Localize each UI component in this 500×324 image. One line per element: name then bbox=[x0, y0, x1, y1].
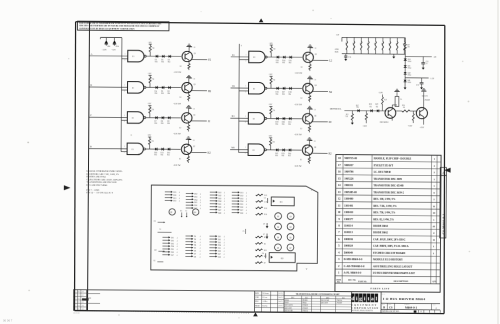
svg-text:664: 664 bbox=[276, 62, 279, 64]
svg-text:1301401: 1301401 bbox=[344, 204, 354, 207]
svg-text:+10: +10 bbox=[314, 48, 317, 50]
svg-text:D17: D17 bbox=[171, 255, 174, 257]
svg-text:D51: D51 bbox=[218, 236, 221, 238]
svg-text:Q2: Q2 bbox=[277, 216, 279, 218]
svg-text:Q9: Q9 bbox=[170, 212, 172, 214]
svg-text:D28: D28 bbox=[369, 104, 372, 106]
svg-text:C16: C16 bbox=[264, 201, 267, 203]
svg-text:664: 664 bbox=[275, 124, 278, 126]
svg-text:R13: R13 bbox=[264, 195, 267, 197]
svg-text:664: 664 bbox=[168, 62, 171, 64]
svg-text:R1: R1 bbox=[345, 43, 347, 45]
svg-text:TRANSISTOR DEC 3009: TRANSISTOR DEC 3009 bbox=[374, 178, 403, 181]
svg-text:2N3009: 2N3009 bbox=[424, 100, 430, 102]
svg-text:D48: D48 bbox=[218, 212, 221, 214]
svg-text:C7: C7 bbox=[263, 234, 265, 236]
svg-text:M664-0-1: M664-0-1 bbox=[405, 306, 417, 310]
svg-text:+10V: +10V bbox=[268, 136, 273, 138]
svg-text:RES. 750, 1/4W, 5%: RES. 750, 1/4W, 5% bbox=[373, 211, 395, 214]
svg-text:D33: D33 bbox=[240, 198, 243, 200]
svg-text:664: 664 bbox=[161, 62, 164, 64]
svg-text:D11: D11 bbox=[171, 237, 174, 239]
svg-text:664: 664 bbox=[167, 123, 170, 125]
svg-text:1000024: 1000024 bbox=[344, 245, 354, 248]
svg-text:D37: D37 bbox=[240, 210, 243, 212]
svg-text:9008337: 9008337 bbox=[344, 164, 354, 167]
svg-text:-15V 2W: -15V 2W bbox=[294, 104, 302, 106]
svg-text:+3.6V: +3.6V bbox=[102, 49, 108, 51]
svg-text:Q2: Q2 bbox=[315, 54, 317, 56]
svg-text:1-8-71: 1-8-71 bbox=[278, 297, 282, 299]
svg-text:Q8: Q8 bbox=[277, 247, 279, 249]
svg-text:RES. 7.5K, 1/4W, 5%: RES. 7.5K, 1/4W, 5% bbox=[373, 205, 397, 208]
svg-text:-15V 2W: -15V 2W bbox=[173, 133, 181, 135]
svg-text:R3: R3 bbox=[360, 43, 362, 45]
svg-text:RESISTORS ARE 7.5K, 1/4W, 5%: RESISTORS ARE 7.5K, 1/4W, 5% bbox=[86, 173, 119, 176]
svg-text:664: 664 bbox=[276, 94, 279, 96]
svg-text:D29: D29 bbox=[375, 104, 378, 106]
svg-text:D12: D12 bbox=[171, 240, 174, 242]
svg-text:Q1: Q1 bbox=[194, 53, 196, 55]
svg-text:DESCRIPTION: DESCRIPTION bbox=[394, 281, 409, 283]
svg-text:1100114: 1100114 bbox=[344, 225, 354, 228]
svg-text:R14: R14 bbox=[264, 214, 267, 216]
svg-text:1000016: 1000016 bbox=[344, 238, 354, 241]
svg-text:C14: C14 bbox=[348, 57, 351, 59]
svg-text:E2: E2 bbox=[253, 57, 255, 59]
svg-text:664: 664 bbox=[282, 124, 285, 126]
svg-text:C8: C8 bbox=[154, 221, 156, 223]
svg-text:D664: D664 bbox=[408, 82, 412, 84]
svg-text:PIN 14 = +5V ON ALL IC`S: PIN 14 = +5V ON ALL IC`S bbox=[86, 191, 113, 194]
svg-text:750: 750 bbox=[152, 48, 155, 50]
svg-text:Q10: Q10 bbox=[193, 212, 196, 214]
svg-text:D5: D5 bbox=[194, 248, 196, 250]
svg-text:664: 664 bbox=[161, 123, 164, 125]
svg-text:-15V: -15V bbox=[420, 127, 425, 129]
svg-text:COPYRIGHT 1971 BY DIGITAL EQUI: COPYRIGHT 1971 BY DIGITAL EQUIPMENT CORP… bbox=[79, 27, 135, 30]
svg-text:D40: D40 bbox=[408, 73, 411, 75]
svg-text:D56: D56 bbox=[194, 205, 197, 207]
svg-text:R13: R13 bbox=[346, 114, 349, 116]
svg-text:+10V 2W: +10V 2W bbox=[421, 95, 428, 97]
svg-text:C2: C2 bbox=[185, 210, 187, 212]
svg-text:4-4: 4-4 bbox=[82, 305, 84, 307]
svg-text:D57: D57 bbox=[218, 254, 221, 256]
svg-text:-15V: -15V bbox=[363, 126, 368, 128]
svg-text:D53: D53 bbox=[218, 242, 221, 244]
svg-text:D63: D63 bbox=[194, 196, 197, 198]
svg-text:D42: D42 bbox=[218, 195, 221, 197]
svg-text:-15V: -15V bbox=[112, 50, 117, 52]
svg-text:1905228: 1905228 bbox=[344, 177, 354, 180]
svg-text:DIODE D664: DIODE D664 bbox=[373, 225, 388, 228]
svg-text:06 06 7: 06 06 7 bbox=[3, 319, 13, 323]
svg-text:B: B bbox=[383, 306, 385, 309]
svg-text:HANDLE, FLIP CHIP - DOUBLE: HANDLE, FLIP CHIP - DOUBLE bbox=[374, 157, 412, 160]
svg-text:R19: R19 bbox=[384, 99, 387, 101]
svg-text:I O BUS DRIVER M664: I O BUS DRIVER M664 bbox=[383, 297, 425, 301]
svg-text:750: 750 bbox=[272, 141, 275, 143]
svg-text:R8: R8 bbox=[396, 43, 398, 45]
svg-text:664: 664 bbox=[288, 94, 291, 96]
svg-text:Q6: Q6 bbox=[314, 115, 316, 117]
svg-text:D4: D4 bbox=[194, 245, 196, 247]
svg-text:D32: D32 bbox=[240, 195, 243, 197]
svg-text:PART NO.: PART NO. bbox=[358, 280, 367, 283]
svg-text:1300377: 1300377 bbox=[344, 218, 354, 221]
svg-text:I.C. DEC74H40: I.C. DEC74H40 bbox=[374, 171, 392, 174]
svg-text:2N3009: 2N3009 bbox=[337, 303, 343, 305]
svg-text:+10: +10 bbox=[193, 47, 196, 49]
svg-text:D21: D21 bbox=[173, 198, 176, 200]
svg-text:D13: D13 bbox=[171, 243, 174, 245]
svg-text:E2: E2 bbox=[253, 150, 255, 152]
svg-text:-15V: -15V bbox=[408, 125, 413, 127]
svg-text:E2: E2 bbox=[78, 298, 80, 300]
svg-text:664: 664 bbox=[155, 93, 158, 95]
svg-text:E1: E1 bbox=[132, 118, 134, 120]
svg-text:QTY.: QTY. bbox=[432, 281, 437, 283]
svg-text:390: 390 bbox=[407, 47, 410, 49]
svg-text:D6: D6 bbox=[194, 250, 196, 252]
svg-text:D31: D31 bbox=[240, 192, 243, 194]
svg-text:+10V: +10V bbox=[269, 43, 274, 45]
svg-text:R20: R20 bbox=[264, 250, 267, 252]
svg-text:750: 750 bbox=[151, 109, 154, 111]
svg-text:D65: D65 bbox=[194, 202, 197, 204]
svg-text:DEC3639-2: DEC3639-2 bbox=[380, 122, 389, 124]
svg-text:RES. 100, 1/4W, 5%: RES. 100, 1/4W, 5% bbox=[373, 198, 395, 201]
svg-text:+10: +10 bbox=[193, 78, 196, 80]
svg-text:I/O BUS DRIVER M664 PARTS LIST: I/O BUS DRIVER M664 PARTS LIST bbox=[373, 272, 415, 275]
svg-text:D52: D52 bbox=[218, 239, 221, 241]
svg-text:K.Fitz: K.Fitz bbox=[262, 305, 267, 307]
svg-text:MODULE ECO HISTORY: MODULE ECO HISTORY bbox=[373, 258, 403, 261]
svg-text:+10: +10 bbox=[192, 140, 195, 142]
svg-text:750: 750 bbox=[273, 49, 276, 51]
svg-text:C15: C15 bbox=[426, 61, 429, 63]
svg-text:+10V: +10V bbox=[147, 103, 152, 105]
svg-text:TRANSISTOR DEC 6534B: TRANSISTOR DEC 6534B bbox=[373, 184, 403, 187]
svg-text:E0: E0 bbox=[78, 291, 80, 293]
svg-text:Q5: Q5 bbox=[193, 114, 195, 116]
svg-text:664: 664 bbox=[289, 62, 292, 64]
svg-text:t: t bbox=[368, 296, 370, 302]
svg-text:TRANSISTORS ARE DEC3639: TRANSISTORS ARE DEC3639 bbox=[86, 181, 117, 184]
svg-text:D23: D23 bbox=[173, 201, 176, 203]
svg-text:R2: R2 bbox=[264, 243, 266, 245]
svg-text:A.Blo: A.Blo bbox=[262, 300, 267, 303]
svg-text:+10: +10 bbox=[313, 109, 316, 111]
svg-text:CAP. 390PF, 100V, 5% D. MICA: CAP. 390PF, 100V, 5% D. MICA bbox=[373, 245, 409, 248]
svg-text:+10: +10 bbox=[313, 141, 316, 143]
svg-text:D1: D1 bbox=[194, 236, 196, 238]
svg-text:664: 664 bbox=[282, 155, 285, 157]
svg-text:D30: D30 bbox=[408, 59, 411, 61]
svg-text:+10V: +10V bbox=[378, 92, 383, 94]
svg-text:D664: D664 bbox=[408, 68, 412, 70]
svg-text:D14: D14 bbox=[171, 246, 174, 248]
svg-text:EYELET 553 B/T: EYELET 553 B/T bbox=[374, 164, 394, 167]
svg-text:D15: D15 bbox=[171, 249, 174, 251]
svg-text:Q3: Q3 bbox=[290, 227, 292, 229]
svg-text:D54: D54 bbox=[218, 245, 221, 247]
svg-text:750: 750 bbox=[151, 141, 154, 143]
svg-text:R20: R20 bbox=[402, 105, 405, 107]
svg-text:R5: R5 bbox=[374, 43, 376, 45]
svg-text:10 20 30: 10 20 30 bbox=[73, 312, 79, 314]
svg-text:E1: E1 bbox=[78, 295, 80, 297]
svg-text:664: 664 bbox=[154, 154, 157, 156]
svg-text:1-7-71: 1-7-71 bbox=[278, 293, 282, 295]
svg-text:664: 664 bbox=[155, 61, 158, 63]
svg-text:D25: D25 bbox=[173, 192, 176, 194]
svg-text:D31: D31 bbox=[408, 66, 411, 68]
svg-text:R16: R16 bbox=[264, 208, 267, 210]
svg-text:DIODE D662: DIODE D662 bbox=[373, 232, 388, 235]
svg-text:D5: D5 bbox=[180, 210, 182, 212]
svg-text:+10: +10 bbox=[192, 109, 195, 111]
svg-text:664: 664 bbox=[161, 154, 164, 156]
svg-text:864: 864 bbox=[107, 46, 110, 48]
svg-text:CAPACITORS ARE .01UF, 100V,20%: CAPACITORS ARE .01UF, 100V,20% bbox=[86, 178, 122, 181]
svg-text:664: 664 bbox=[282, 94, 285, 96]
svg-text:664: 664 bbox=[369, 106, 372, 108]
svg-text:+10V: +10V bbox=[148, 42, 153, 44]
svg-text:RES. 82, 1/4W, 5%: RES. 82, 1/4W, 5% bbox=[373, 218, 394, 221]
svg-text:1300400: 1300400 bbox=[344, 198, 354, 201]
svg-text:D8: D8 bbox=[194, 256, 196, 258]
svg-text:D7: D7 bbox=[194, 253, 196, 255]
svg-text:1909798: 1909798 bbox=[344, 171, 354, 174]
svg-text:E4: E4 bbox=[78, 305, 80, 307]
svg-text:C1: C1 bbox=[264, 198, 266, 200]
svg-text:1905385-00: 1905385-00 bbox=[344, 191, 357, 194]
svg-text:DIODES ARE D664: DIODES ARE D664 bbox=[86, 175, 106, 178]
svg-text:-15V 2W: -15V 2W bbox=[295, 73, 303, 75]
svg-text:R4: R4 bbox=[367, 43, 369, 45]
svg-text:CS M664-0-1: CS M664-0-1 bbox=[442, 213, 446, 234]
svg-text:J.Lew: J.Lew bbox=[262, 297, 267, 299]
svg-text:R7: R7 bbox=[389, 43, 391, 45]
svg-text:1900311: 1900311 bbox=[344, 184, 354, 187]
svg-text:750: 750 bbox=[272, 110, 275, 112]
svg-text:C O R P O R A T I O N: C O R P O R A T I O N bbox=[351, 306, 378, 309]
svg-text:R2: R2 bbox=[179, 127, 181, 129]
svg-text:R2: R2 bbox=[300, 128, 302, 130]
svg-text:R6: R6 bbox=[381, 43, 383, 45]
svg-text:4-0: 4-0 bbox=[82, 291, 84, 293]
svg-text:E1: E1 bbox=[132, 149, 134, 151]
svg-text:D2: D2 bbox=[194, 239, 196, 241]
svg-text:1100113: 1100113 bbox=[344, 231, 354, 234]
svg-text:D47: D47 bbox=[218, 210, 221, 212]
svg-text:C16: C16 bbox=[416, 85, 419, 87]
svg-text:TRANSISTOR DEC 3639-2: TRANSISTOR DEC 3639-2 bbox=[373, 191, 404, 194]
svg-text:TITLE: TITLE bbox=[381, 293, 385, 295]
svg-text:+1.5V: +1.5V bbox=[430, 78, 435, 80]
svg-text:a: a bbox=[371, 296, 374, 302]
svg-text:Q1: Q1 bbox=[290, 216, 292, 218]
svg-text:A-PL-M664-0-0: A-PL-M664-0-0 bbox=[344, 272, 362, 275]
svg-text:-15V 2W: -15V 2W bbox=[173, 165, 181, 167]
svg-text:664: 664 bbox=[288, 155, 291, 157]
svg-text:D58: D58 bbox=[218, 256, 221, 258]
svg-text:-15V 2W: -15V 2W bbox=[294, 134, 302, 136]
svg-text:R2: R2 bbox=[353, 43, 355, 45]
svg-text:PARTS LIST: PARTS LIST bbox=[371, 287, 390, 290]
svg-text:R.Swan: R.Swan bbox=[263, 293, 269, 295]
svg-text:D38: D38 bbox=[240, 213, 243, 215]
svg-text:D-MD-M664-0-0: D-MD-M664-0-0 bbox=[344, 258, 363, 261]
svg-text:664: 664 bbox=[275, 155, 278, 157]
svg-text:g: g bbox=[359, 296, 362, 302]
svg-text:+10V: +10V bbox=[268, 104, 273, 106]
svg-text:D35: D35 bbox=[240, 204, 243, 206]
svg-text:4-3: 4-3 bbox=[82, 302, 84, 304]
svg-text:PROD: PROD bbox=[255, 305, 260, 307]
svg-text:PIN 7 = GND: PIN 7 = GND bbox=[86, 190, 99, 192]
svg-text:100: 100 bbox=[403, 107, 406, 109]
svg-text:D3: D3 bbox=[194, 242, 196, 244]
svg-text:664: 664 bbox=[376, 106, 379, 108]
svg-text:+10: +10 bbox=[314, 79, 317, 81]
svg-text:D41: D41 bbox=[218, 192, 221, 194]
svg-text:E1: E1 bbox=[132, 56, 134, 58]
svg-text:Q3: Q3 bbox=[194, 84, 196, 86]
svg-text:R21: R21 bbox=[264, 256, 267, 258]
svg-text:750: 750 bbox=[152, 79, 155, 81]
svg-text:664: 664 bbox=[282, 62, 285, 64]
svg-text:D62: D62 bbox=[194, 193, 197, 195]
svg-text:L1: L1 bbox=[160, 229, 162, 231]
svg-text:-15V 2W: -15V 2W bbox=[173, 103, 181, 105]
svg-text:D64: D64 bbox=[194, 199, 197, 201]
svg-text:E1: E1 bbox=[132, 88, 134, 90]
svg-text:5009049: 5009049 bbox=[344, 252, 354, 255]
svg-text:R2: R2 bbox=[179, 159, 181, 161]
svg-text:750: 750 bbox=[273, 80, 276, 82]
svg-text:CS: CS bbox=[389, 307, 393, 310]
svg-text:-15V 2W: -15V 2W bbox=[174, 72, 182, 74]
svg-text:D16: D16 bbox=[171, 252, 174, 254]
svg-text:D46: D46 bbox=[218, 207, 221, 209]
svg-text:Q5: Q5 bbox=[289, 237, 291, 239]
svg-text:D664: D664 bbox=[408, 74, 412, 76]
svg-text:+5V: +5V bbox=[335, 35, 339, 37]
svg-text:R2: R2 bbox=[301, 67, 303, 69]
svg-text:DRIVER B L: DRIVER B L bbox=[330, 108, 342, 110]
svg-text:IC`S ARE DEC74H40: IC`S ARE DEC74H40 bbox=[86, 184, 108, 187]
svg-text:664: 664 bbox=[167, 93, 170, 95]
svg-text:ETCHED CIRCUIT BOARD: ETCHED CIRCUIT BOARD bbox=[373, 252, 405, 255]
svg-text:Q4: Q4 bbox=[315, 85, 317, 87]
svg-text:D36: D36 bbox=[240, 207, 243, 209]
svg-text:D: D bbox=[90, 145, 92, 148]
svg-text:664: 664 bbox=[167, 154, 170, 156]
svg-text:E2: E2 bbox=[253, 88, 255, 90]
svg-text:R2: R2 bbox=[180, 66, 182, 68]
svg-text:DEC3009: DEC3009 bbox=[321, 302, 328, 304]
svg-text:D664: D664 bbox=[408, 61, 412, 63]
svg-text:D43: D43 bbox=[218, 198, 221, 200]
svg-text:C5: C5 bbox=[243, 231, 245, 233]
svg-text:D41: D41 bbox=[408, 80, 411, 82]
svg-text:C9: C9 bbox=[263, 224, 265, 226]
svg-text:Q7: Q7 bbox=[289, 248, 291, 250]
svg-text:-15V 2W: -15V 2W bbox=[294, 166, 302, 168]
svg-text:664: 664 bbox=[288, 124, 291, 126]
svg-text:C6: C6 bbox=[153, 260, 155, 262]
svg-text:664: 664 bbox=[154, 123, 157, 125]
svg-text:+10V: +10V bbox=[147, 135, 152, 137]
svg-text:R9: R9 bbox=[403, 43, 405, 45]
svg-text:1-8-71: 1-8-71 bbox=[278, 301, 282, 303]
svg-text:664: 664 bbox=[356, 107, 359, 109]
svg-text:D34: D34 bbox=[240, 201, 243, 203]
svg-text:A: A bbox=[90, 53, 92, 56]
svg-text:4-1: 4-1 bbox=[82, 295, 84, 297]
svg-text:C4: C4 bbox=[262, 253, 264, 255]
svg-text:Q4: Q4 bbox=[277, 227, 279, 229]
svg-text:L1: L1 bbox=[400, 99, 402, 101]
svg-text:1300410: 1300410 bbox=[344, 211, 354, 214]
svg-text:Q6: Q6 bbox=[277, 237, 279, 239]
svg-text:C-AD-7004460-0-0: C-AD-7004460-0-0 bbox=[344, 265, 365, 268]
svg-text:CAP. .01UF, 100V, 20% DISC: CAP. .01UF, 100V, 20% DISC bbox=[373, 238, 405, 241]
svg-text:D45: D45 bbox=[218, 204, 221, 206]
svg-text:Q8: Q8 bbox=[314, 147, 316, 149]
svg-text:E3: E3 bbox=[78, 302, 80, 304]
svg-text:R17: R17 bbox=[407, 45, 410, 47]
svg-text:R7: R7 bbox=[264, 263, 266, 265]
svg-text:D56: D56 bbox=[218, 251, 221, 253]
svg-text:R2: R2 bbox=[180, 97, 182, 99]
svg-text:D26: D26 bbox=[173, 195, 176, 197]
svg-text:E2: E2 bbox=[253, 119, 255, 121]
svg-text:Q7: Q7 bbox=[193, 146, 195, 148]
svg-text:.01: .01 bbox=[426, 63, 428, 65]
svg-text:D9: D9 bbox=[154, 250, 156, 252]
svg-text:DEC NO.: DEC NO. bbox=[348, 280, 356, 282]
svg-text:D27: D27 bbox=[356, 105, 359, 107]
svg-text:R2: R2 bbox=[300, 159, 302, 161]
svg-text:1-9-71: 1-9-71 bbox=[278, 305, 282, 307]
svg-text:+10V: +10V bbox=[268, 74, 273, 76]
svg-text:D55: D55 bbox=[218, 248, 221, 250]
svg-text:R2: R2 bbox=[301, 98, 303, 100]
svg-text:ASSY/DRILLING HOLE LAYOUT: ASSY/DRILLING HOLE LAYOUT bbox=[373, 265, 413, 268]
svg-text:9009715-00: 9009715-00 bbox=[344, 157, 357, 160]
svg-text:+10V: +10V bbox=[147, 73, 152, 75]
svg-text:D44: D44 bbox=[218, 201, 221, 203]
svg-text:D54: D54 bbox=[116, 46, 119, 48]
svg-text:664: 664 bbox=[161, 93, 164, 95]
